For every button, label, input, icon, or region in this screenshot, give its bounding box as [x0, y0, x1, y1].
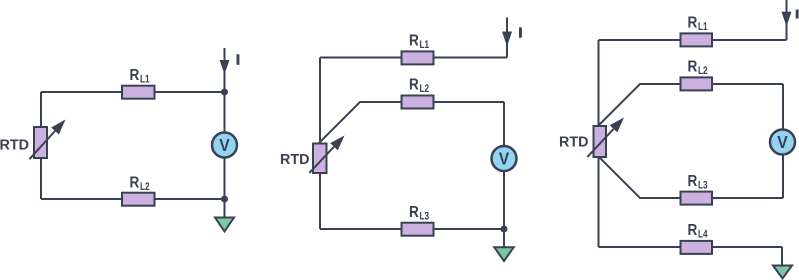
svg-text:L1: L1 — [420, 39, 430, 51]
svg-text:R: R — [130, 174, 140, 191]
svg-text:L2: L2 — [140, 181, 150, 193]
svg-text:R: R — [688, 173, 698, 190]
svg-text:L3: L3 — [420, 210, 430, 222]
svg-text:RTD: RTD — [280, 152, 310, 168]
svg-text:R: R — [409, 33, 419, 50]
svg-text:R: R — [688, 59, 698, 76]
svg-text:R: R — [409, 204, 419, 221]
svg-text:R: R — [688, 222, 698, 239]
svg-text:R: R — [409, 77, 419, 94]
svg-text:R: R — [688, 15, 698, 32]
svg-text:RTD: RTD — [559, 135, 589, 151]
svg-text:V: V — [777, 132, 788, 152]
svg-text:L4: L4 — [698, 229, 708, 241]
svg-text:L3: L3 — [698, 179, 708, 191]
svg-text:L2: L2 — [698, 65, 708, 77]
svg-text:L1: L1 — [140, 74, 150, 86]
svg-text:V: V — [499, 149, 510, 169]
svg-text:RTD: RTD — [0, 137, 29, 153]
svg-text:V: V — [219, 135, 230, 155]
svg-text:L1: L1 — [698, 21, 708, 33]
svg-text:L2: L2 — [420, 83, 430, 95]
svg-text:R: R — [130, 67, 140, 84]
